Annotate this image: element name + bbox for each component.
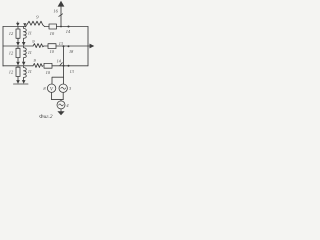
junction dot on rail1 left <box>25 26 27 28</box>
wire rail1 left segment <box>3 24 28 27</box>
svg-text:3: 3 <box>69 86 72 91</box>
svg-text:18: 18 <box>69 49 74 54</box>
svg-text:16: 16 <box>53 9 58 14</box>
svg-text:4: 4 <box>66 103 69 108</box>
node 13 dot rail3 x68.5 <box>68 65 70 67</box>
source 3 circle <box>59 84 67 92</box>
wire rail1 right segment <box>57 26 89 28</box>
svg-text:9: 9 <box>32 39 35 44</box>
svg-text:12: 12 <box>9 31 14 36</box>
wire source 3 to bottom bar <box>62 92 64 99</box>
wire rail2 left segment <box>3 45 33 47</box>
cell2: resistor 12 box <box>17 46 19 48</box>
wire source 4 to ground <box>60 109 62 111</box>
arrowhead onto rail1 at x18 <box>17 22 19 23</box>
svg-text:14: 14 <box>57 58 61 63</box>
tick on arrow 16 line <box>59 14 63 17</box>
resistor 9 (rail3 zigzag) <box>33 63 43 67</box>
cell3: coil 11 <box>24 66 27 80</box>
svg-text:10: 10 <box>50 31 55 36</box>
cell1: resistor 12 box <box>17 27 19 30</box>
resistor 9 (rail1 zigzag) <box>28 21 45 26</box>
wire left edge <box>2 27 4 67</box>
svg-text:11: 11 <box>28 50 32 55</box>
source 4 circle <box>57 101 65 109</box>
junction dot at arrow 16 base <box>60 26 62 28</box>
svg-text:10: 10 <box>50 49 55 54</box>
arrow 16 (vertical up arrow) <box>60 6 62 27</box>
junction dot rail3 x63.5 <box>63 65 65 67</box>
wire rail4 short bar <box>14 83 29 85</box>
svg-text:14: 14 <box>66 29 71 34</box>
wire rail2 mid segment <box>44 45 48 47</box>
resistor 10 (rail2 box) <box>48 44 56 49</box>
wire from rail2/rail3 down to instruments <box>63 46 65 84</box>
cell1: coil 11 <box>24 27 27 42</box>
wire right edge <box>87 27 89 66</box>
wire rail1 mid segment <box>45 26 50 28</box>
svg-text:11: 11 <box>28 30 32 35</box>
svg-text:13: 13 <box>70 69 74 74</box>
node dot rail2 x68.5 <box>68 45 70 47</box>
arrowhead onto rail1 at x25 <box>23 23 26 26</box>
node 14 dot on rail1 <box>67 25 69 27</box>
svg-text:Фиг.2: Фиг.2 <box>39 114 53 120</box>
meter 8 circle <box>47 84 55 92</box>
svg-text:9: 9 <box>36 14 39 19</box>
wire rail2 right segment with output arrow <box>56 45 90 47</box>
wire jumper to meter 8 <box>52 77 64 84</box>
svg-text:12: 12 <box>9 70 14 75</box>
wire meter 8 to bottom bar <box>51 92 53 99</box>
cell3: resistor 12 box <box>17 66 19 67</box>
svg-text:10: 10 <box>46 70 51 75</box>
wire stem to source 4 <box>60 100 62 101</box>
svg-text:11: 11 <box>28 69 32 74</box>
wire rail3 left segment <box>3 65 33 67</box>
wire rail3 right segment <box>52 65 88 67</box>
resistor 9 (rail2 zigzag) <box>33 44 44 48</box>
ground arrow <box>57 111 64 115</box>
wire bottom bar <box>52 99 64 101</box>
svg-text:9: 9 <box>34 58 37 63</box>
resistor 10 (rail1 box) <box>49 24 57 29</box>
junction dot rail2 x63.5 <box>63 45 65 47</box>
svg-text:13: 13 <box>59 41 63 46</box>
svg-text:12: 12 <box>9 51 14 56</box>
svg-text:8: 8 <box>43 86 46 91</box>
resistor 10 (rail3 box) <box>44 63 52 68</box>
cell2: coil 11 <box>24 46 27 62</box>
tick on rail3 <box>60 63 62 66</box>
